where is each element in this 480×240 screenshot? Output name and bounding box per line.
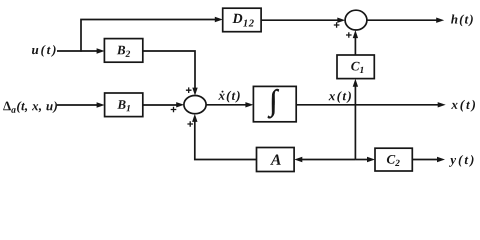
plus sign at S1 left input — [171, 107, 177, 113]
label x(t) node — [329, 91, 351, 103]
wire D12 output to summing junction S2 left — [261, 18, 345, 23]
wire B2 output right then down into summing junction S1 top — [143, 51, 198, 96]
block D12 — [223, 8, 261, 32]
plus sign at S2 bottom input — [346, 32, 352, 38]
wire A output left then up into summing junction S1 bottom — [192, 114, 256, 160]
wire u(t) input to B2 — [57, 48, 105, 53]
plus sign at S1 bottom input — [187, 121, 193, 127]
label C2 — [387, 155, 400, 166]
label C1 — [351, 62, 363, 73]
wire C2 output to y(t) — [412, 157, 445, 162]
wire bottom rail right into C2 left side — [355, 157, 375, 162]
block B2 — [104, 39, 142, 63]
label B2 — [117, 46, 130, 57]
block A — [257, 148, 295, 172]
wire S1 output to integrator — [206, 102, 253, 107]
wire Delta_a input to B1 — [57, 102, 105, 107]
label Delta_a(t,x,u) input — [3, 101, 57, 113]
label y(t) output — [449, 155, 474, 167]
wire S2 output to h(t) — [367, 18, 444, 23]
label A — [270, 155, 281, 165]
label D12 — [232, 14, 253, 27]
label xdot(t) node — [218, 91, 239, 103]
label u(t) input — [32, 45, 56, 57]
wire integrator output to x(t) output arrow, through node at x=355 — [296, 102, 446, 107]
wire node on x(t) line up into C1 bottom — [353, 79, 358, 105]
plus sign at S1 top input — [186, 87, 192, 93]
label x(t) output — [451, 100, 475, 112]
summing junction S2 — [345, 10, 367, 30]
wire branch from u(t) line up and along top rail to D12 — [81, 17, 223, 52]
block B1 — [105, 93, 143, 117]
wire node on x(t) line down to bottom feedback rail — [354, 105, 356, 160]
block C1 — [337, 55, 374, 79]
summing junction S1 — [184, 96, 206, 114]
label h(t) output — [451, 15, 473, 27]
label integral sign — [268, 89, 279, 118]
block C2 — [375, 148, 412, 171]
plus sign at S2 left input — [334, 22, 340, 28]
label B1 — [117, 100, 130, 111]
wire B1 output to summing junction S1 left — [143, 102, 184, 107]
block integrator — [253, 86, 296, 121]
wire bottom rail left into A right side — [294, 157, 355, 162]
wire C1 output up into summing junction S2 bottom — [353, 30, 358, 55]
